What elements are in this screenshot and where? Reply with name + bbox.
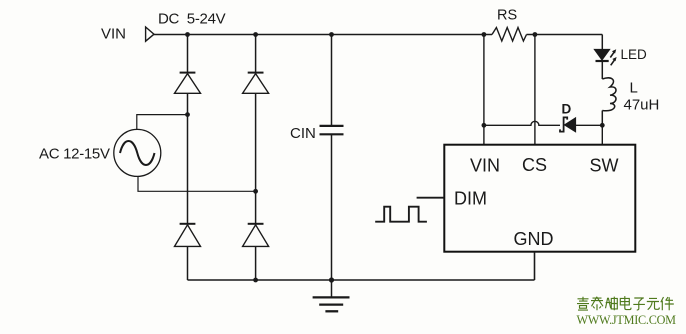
AC source V1 [114, 129, 161, 176]
wire bridge column right [255, 35, 257, 281]
svg-text:47uH: 47uH [624, 97, 660, 114]
svg-text:DC 5-24V: DC 5-24V [158, 10, 226, 27]
node junction dot bottom rail [253, 278, 258, 283]
pin label VIN [470, 156, 500, 176]
diode D2 bridge top-right [243, 73, 269, 94]
svg-text:VIN: VIN [470, 156, 500, 176]
node junction dot top rail 1 [185, 32, 190, 37]
node junction dot D left [482, 123, 487, 128]
wire L to SW node [601, 111, 603, 126]
node junction dot ground [329, 277, 334, 282]
pin label CS [522, 155, 547, 175]
op-amp U1 driver IC box [444, 145, 635, 252]
node junction dot RS left [482, 32, 487, 37]
label AC 12-15V [39, 146, 110, 163]
label 47uH [624, 97, 660, 114]
pin label DIM [454, 189, 487, 209]
watermark chinese text [577, 296, 674, 310]
VIN input arrow [146, 27, 154, 41]
ground [313, 280, 350, 311]
wire CS pin column [534, 35, 536, 145]
diode D schottky [560, 117, 602, 131]
wire VIN pin column [483, 35, 485, 145]
net label DC 5-24V [158, 10, 226, 27]
wire LED column top [601, 35, 603, 50]
node junction dot top rail 2 [253, 32, 258, 37]
svg-text:AC 12-15V: AC 12-15V [39, 146, 110, 163]
wire top rail right [527, 34, 603, 36]
label LED [621, 47, 648, 62]
wire CIN column [331, 35, 333, 281]
node junction dot SW [600, 123, 605, 128]
diode D3 bridge bottom-left [175, 224, 201, 247]
node junction dot top rail 3 [329, 32, 334, 37]
svg-text:GND: GND [514, 229, 554, 249]
wire SW pin [601, 125, 603, 144]
svg-text:D: D [562, 102, 572, 117]
label CIN [290, 125, 316, 142]
svg-text:VIN: VIN [101, 26, 126, 43]
watermark url text [577, 313, 677, 327]
resistor RS [492, 28, 527, 42]
svg-text:LED: LED [621, 47, 648, 62]
square wave PWM symbol [375, 207, 427, 222]
node junction dot AC bottom [253, 189, 258, 194]
diode D1 bridge top-left [175, 73, 201, 94]
wire LED to L [601, 61, 603, 79]
inductor L [602, 78, 616, 111]
svg-text:RS: RS [497, 8, 517, 24]
LED [594, 49, 616, 65]
wire AC bottom lead [138, 176, 256, 191]
wire D anode net with hop over CS [484, 121, 560, 125]
capacitor CIN [320, 126, 344, 134]
diode D4 bridge bottom-right [243, 224, 269, 247]
wire DIM input [417, 197, 445, 199]
label RS [497, 8, 517, 24]
node junction dot AC top [185, 112, 190, 117]
pin label GND [514, 229, 554, 249]
svg-text:CIN: CIN [290, 125, 316, 142]
wire AC top lead [137, 115, 188, 130]
svg-text:SW: SW [590, 156, 619, 176]
svg-text:CS: CS [522, 155, 547, 175]
pin label SW [590, 156, 619, 176]
wire top rail left [154, 34, 492, 36]
node junction dot RS right [533, 32, 538, 37]
wire bottom rail [188, 279, 535, 281]
wire GND pin to bottom rail [534, 252, 536, 280]
wire bridge column left [187, 35, 189, 281]
label L [630, 80, 638, 97]
node VIN label [101, 26, 126, 43]
svg-text:WWW.JTMIC.COM: WWW.JTMIC.COM [577, 313, 677, 327]
label D [562, 102, 572, 117]
svg-text:L: L [630, 80, 638, 97]
svg-text:DIM: DIM [454, 189, 487, 209]
